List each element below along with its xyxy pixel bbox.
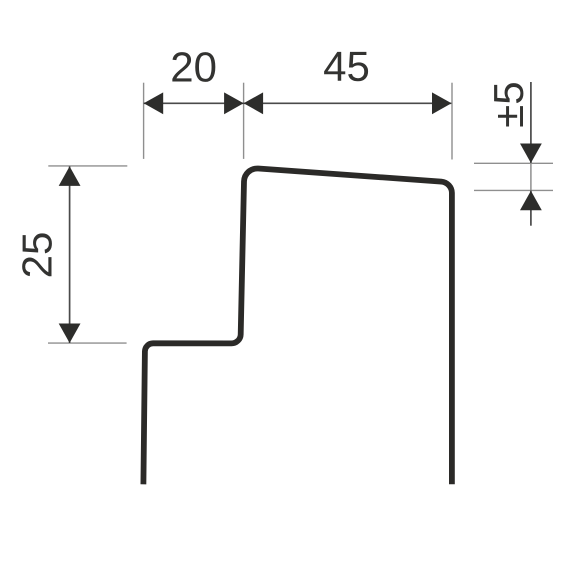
arrowhead dim 45 left <box>244 92 264 114</box>
label 20 <box>172 52 215 82</box>
extension line right of dim 45 <box>451 83 453 160</box>
label plus-minus 5 (rotated) <box>494 83 523 126</box>
label 25 (rotated) <box>22 233 52 276</box>
label 45 <box>324 52 368 81</box>
tick line top of dim 25 <box>48 165 127 167</box>
arrowhead dim 20 left <box>144 92 164 114</box>
tick line upper of dim plus-minus 5 <box>474 162 553 164</box>
profile outline (stepped sheet-metal cross-section) <box>143 168 452 484</box>
arrowhead dim 25 down <box>59 324 81 344</box>
arrowhead dim plus-minus 5 down <box>520 144 542 164</box>
tick line bottom of dim 25 <box>48 342 127 344</box>
arrowhead dim 20 right <box>224 92 244 114</box>
dimension line for 25 <box>69 166 71 343</box>
dimension line for 20 and 45 <box>144 102 452 104</box>
arrowhead dim plus-minus 5 up <box>520 191 542 211</box>
arrowhead dim 45 right <box>432 92 452 114</box>
tick line lower of dim plus-minus 5 <box>474 189 553 191</box>
dimension line lower for plus-minus 5 <box>530 191 532 226</box>
dimension line upper for plus-minus 5 <box>530 82 532 163</box>
extension line between dim 20 and dim 45 <box>243 83 245 159</box>
extension line left of dim 20 <box>143 83 145 159</box>
arrowhead dim 25 up <box>59 166 81 186</box>
dimension line between ticks for plus-minus 5 <box>530 163 532 191</box>
